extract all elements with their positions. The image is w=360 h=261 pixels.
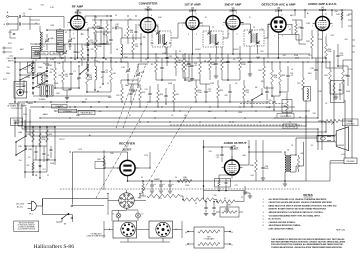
wire filament end	[235, 193, 250, 202]
svg-text:2ND IF AMP: 2ND IF AMP	[225, 3, 242, 7]
svg-text:68: 68	[204, 61, 206, 63]
svg-text:C24: C24	[260, 29, 263, 31]
svg-text:PAGE S-86: PAGE S-86	[336, 229, 345, 232]
resistor R43 filament string c	[217, 200, 235, 204]
svg-text:2: 2	[144, 36, 145, 38]
boxed label ANT COIL	[35, 51, 48, 55]
svg-text:2: 2	[274, 36, 275, 38]
svg-text:.05: .05	[28, 157, 31, 159]
svg-text:.05: .05	[77, 79, 80, 81]
svg-text:1ST IF AMP: 1ST IF AMP	[184, 3, 200, 7]
svg-text:T3: T3	[291, 145, 293, 147]
svg-text:R14: R14	[160, 94, 163, 96]
svg-text:.01: .01	[290, 75, 293, 77]
svg-text:R16: R16	[177, 62, 180, 64]
wire V8 left column	[203, 140, 205, 200]
wire loop top feed to sockets	[73, 198, 109, 200]
resistor R33 in tone box	[333, 83, 335, 95]
capacitor C50	[50, 149, 53, 150]
transformer T5 secondary	[290, 155, 291, 172]
svg-text:PHONO: PHONO	[13, 120, 20, 122]
junction dots on buses	[54, 53, 334, 194]
svg-text:VT BALLAST: VT BALLAST	[204, 238, 216, 241]
wire left-mid horizontals	[25, 127, 55, 172]
switch arm S1A	[33, 71, 47, 78]
svg-text:C12: C12	[169, 56, 172, 58]
capacitor C24	[265, 91, 268, 92]
wire converter left mesh	[92, 38, 107, 48]
svg-text:BAND SELECTOR SWITCH SHOWN IN: BAND SELECTOR SWITCH SHOWN IN BAND A POS…	[269, 204, 338, 207]
ground G14	[204, 214, 208, 216]
svg-text:C11: C11	[141, 72, 144, 74]
value labels left-mid	[18, 131, 55, 177]
svg-text:AUDIO AMP & B.F.O.: AUDIO AMP & B.F.O.	[308, 2, 338, 6]
svg-text:R8: R8	[169, 43, 171, 45]
wire rectifier bottom lead	[127, 176, 129, 181]
svg-text:C10: C10	[121, 67, 124, 69]
svg-text:C25: C25	[268, 100, 271, 102]
resistor R7	[132, 40, 135, 52]
svg-text:S2: S2	[247, 101, 249, 103]
svg-text:.02: .02	[325, 103, 328, 105]
boxed label ON-OFF VOLUME	[277, 114, 294, 119]
svg-text:.05: .05	[106, 44, 109, 46]
wire loop 1	[18, 102, 306, 126]
resistor R53	[46, 130, 49, 142]
svg-text:FOR LATE PRODUCTION CHANGES. A: FOR LATE PRODUCTION CHANGES. ALL MEASURE…	[271, 243, 344, 246]
svg-text:1: 1	[312, 26, 313, 28]
svg-text:CONTROL: CONTROL	[346, 124, 355, 126]
svg-text:R3: R3	[50, 72, 52, 74]
resistor R9	[155, 60, 158, 72]
capacitor C15	[129, 93, 132, 94]
wire y44 bus	[30, 43, 111, 45]
wire AVC bus y102	[18, 101, 270, 103]
capacitor C13	[160, 67, 163, 68]
svg-text:5: 5	[326, 35, 327, 37]
svg-text:GANG: GANG	[27, 102, 33, 105]
svg-text:47: 47	[179, 51, 181, 53]
wire det top mesh	[292, 20, 306, 44]
capacitor C6	[109, 39, 112, 40]
svg-text:R31: R31	[324, 75, 327, 77]
capacitor C2	[19, 22, 20, 25]
resistor R24	[271, 70, 274, 84]
svg-text:PADDER ADJ: PADDER ADJ	[81, 112, 93, 115]
capacitor C10 osc padder	[126, 70, 130, 71]
capacitor C43	[135, 31, 138, 32]
capacitor C18	[187, 63, 190, 64]
capacitor C27	[300, 27, 303, 28]
wire y75 link	[20, 74, 47, 76]
wire right verticals	[306, 30, 345, 181]
svg-text:R21: R21	[220, 90, 223, 92]
boxed label TRIMMER PADDER	[78, 110, 95, 115]
transformer T3 3rd IF	[244, 30, 264, 46]
volume control R28	[282, 100, 292, 113]
capacitor C17	[164, 95, 167, 96]
wire T5 secondary leads	[296, 138, 317, 172]
svg-text:1200: 1200	[185, 185, 189, 187]
svg-text:40: 40	[141, 177, 143, 179]
wire antenna leads	[9, 17, 18, 31]
svg-text:3-30: 3-30	[50, 69, 54, 71]
phones jack J2	[344, 158, 357, 164]
svg-text:G: G	[3, 24, 5, 26]
svg-text:1200: 1200	[183, 179, 187, 181]
capacitor C16	[148, 93, 151, 94]
svg-text:PHONES: PHONES	[347, 161, 356, 163]
svg-text:.05: .05	[233, 59, 236, 61]
wire gang dash-dot diagonal D2	[139, 106, 192, 198]
svg-text:40MFD: 40MFD	[154, 179, 161, 181]
antenna terminal E1	[7, 16, 9, 18]
wire osc mesh	[121, 33, 148, 88]
coil L3 box	[28, 62, 36, 73]
boxed label ON-OFF	[95, 162, 105, 169]
wire interlock loop	[43, 199, 73, 220]
tube V3 envelope	[186, 17, 199, 30]
svg-text:47: 47	[289, 29, 291, 31]
svg-text:7: 7	[332, 26, 333, 28]
svg-text:B+: B+	[307, 13, 309, 15]
resistor R17	[209, 58, 212, 70]
speaker LS1 cone	[334, 134, 336, 143]
svg-text:T3: T3	[253, 27, 255, 29]
boxed label OSC ADJ	[52, 104, 68, 108]
capacitor C44	[23, 85, 26, 86]
svg-text:R15: R15	[176, 94, 179, 96]
pilot lamp I2	[136, 213, 141, 218]
boxed label RF COIL	[50, 51, 63, 55]
svg-text:35L6GT: 35L6GT	[230, 148, 239, 151]
svg-text:ARROW INDICATES CLOCKWISE ROTA: ARROW INDICATES CLOCKWISE ROTATION OF CO…	[269, 211, 324, 214]
resistor R13	[139, 88, 142, 100]
wire B+ top bus	[78, 9, 353, 11]
resistor R35 surge	[103, 156, 105, 166]
resistor R39 cathode	[218, 180, 220, 187]
svg-text:R6: R6	[97, 91, 99, 93]
plug P1	[28, 204, 32, 209]
svg-text:C40: C40	[346, 15, 349, 17]
svg-text:.05: .05	[235, 83, 238, 85]
trimmer C47	[63, 52, 67, 53]
svg-text:6: 6	[326, 14, 327, 16]
svg-text:R27: R27	[308, 55, 311, 57]
capacitor C29	[336, 55, 339, 56]
wire detector drops	[268, 24, 299, 58]
coil L7 BFO box	[304, 87, 311, 102]
svg-text:MAY VARY BETWEEN PRODUCTION RU: MAY VARY BETWEEN PRODUCTION RUNS. CONSUL…	[271, 241, 346, 244]
jack J1 terminals	[3, 47, 5, 49]
wire RF grid mesh	[30, 24, 111, 34]
svg-text:22: 22	[47, 175, 49, 177]
svg-text:R32: R32	[348, 69, 351, 71]
wire plug to loop	[36, 205, 42, 207]
svg-text:Hallicrafters S-86: Hallicrafters S-86	[34, 243, 75, 250]
wire socket X1 leads	[108, 190, 146, 215]
resistor R42 filament string b	[183, 198, 214, 202]
svg-text:CAPACITOR VALUES ARE IN MFD. U: CAPACITOR VALUES ARE IN MFD. UNLESS OTHE…	[269, 201, 333, 204]
wire loop 4	[30, 50, 334, 136]
coil L4 box	[38, 73, 46, 84]
wire bus y107	[30, 106, 295, 108]
wire left-mid verticals	[25, 120, 55, 178]
svg-text:IN POSITION. SWITCH: IN POSITION. SWITCH	[18, 224, 36, 226]
switch arm S1E	[80, 67, 88, 74]
svg-text:C9: C9	[124, 35, 126, 37]
wire V8 cathode leads	[204, 175, 246, 191]
capacitor C34 filter	[168, 185, 172, 186]
resistor R18	[221, 58, 224, 70]
wire loop 5 left drop	[14, 122, 16, 137]
svg-text:R50: R50	[76, 52, 79, 54]
resistor R46 RF plate load	[94, 22, 97, 34]
transformer T5 primary	[285, 155, 286, 172]
tone box	[331, 81, 345, 103]
svg-text:47: 47	[129, 115, 131, 117]
boxed label TRIMMER ADJ	[58, 109, 77, 113]
svg-text:BFO: BFO	[308, 73, 312, 75]
tube socket X2 bottom view	[121, 222, 135, 236]
svg-text:CLOCKWISE POSITION: CLOCKWISE POSITION	[17, 229, 35, 231]
svg-text:2: 2	[229, 34, 230, 36]
svg-text:5: 5	[196, 34, 197, 36]
junction dots extra pass	[14, 15, 308, 122]
capacitor C21	[248, 61, 251, 62]
capacitor C35 coupling	[220, 154, 223, 155]
resistor R52	[39, 133, 42, 145]
svg-text:.05: .05	[184, 115, 187, 117]
wire dashed bus y103.5	[240, 103, 285, 105]
svg-text:C15: C15	[144, 89, 147, 91]
wire y16 link	[30, 19, 40, 21]
svg-text:455KC: 455KC	[233, 49, 239, 51]
svg-text:2.2M: 2.2M	[186, 66, 191, 68]
wire V8 right columns	[249, 140, 263, 164]
wire V8 plate to T5	[240, 152, 283, 165]
svg-text:1: 1	[268, 27, 269, 29]
capacitor C14	[190, 65, 193, 66]
svg-text:RADIO: RADIO	[14, 122, 20, 125]
svg-text:RF AMP: RF AMP	[72, 5, 83, 9]
loop small box	[220, 207, 239, 217]
capacitor C20	[226, 61, 229, 62]
band switch S1A wafer	[32, 60, 34, 96]
svg-text:1: 1	[182, 25, 183, 27]
wire bus y62	[15, 61, 330, 63]
value labels IF section	[187, 27, 261, 103]
svg-text:PL1: PL1	[29, 214, 32, 216]
wire speaker return	[306, 161, 344, 181]
switch arm S1C left	[20, 65, 30, 70]
pilot lamp I1	[116, 213, 121, 218]
svg-text:LINE CAPACITOR SYMBOL:: LINE CAPACITOR SYMBOL:	[269, 228, 295, 231]
resistor R44a	[198, 230, 220, 233]
ground G9	[159, 191, 163, 193]
wire gang dash-dot diagonal D1	[96, 104, 148, 198]
wire audio amp mesh	[312, 58, 352, 94]
svg-text:R25: R25	[282, 75, 285, 77]
wire V8 grid top	[204, 147, 233, 160]
wire loop 2	[22, 104, 318, 150]
svg-text:2.2M: 2.2M	[50, 59, 54, 61]
tube V4 envelope	[226, 16, 240, 30]
svg-text:VOLTAGES MEASURED WITH VTVM, N: VOLTAGES MEASURED WITH VTVM, NO SIGNAL I…	[269, 214, 321, 217]
svg-text:VT9 BALLAST: VT9 BALLAST	[91, 232, 102, 235]
svg-text:3-30: 3-30	[23, 69, 27, 71]
capacitor C32 filter	[150, 185, 154, 186]
wire x352 stubs	[348, 14, 352, 26]
ground G15	[212, 214, 216, 216]
capacitor C38 line bypass	[204, 207, 207, 208]
cathode box V8	[215, 179, 231, 188]
svg-text:ADJUSTABLE RESISTOR SYMBOL:: ADJUSTABLE RESISTOR SYMBOL:	[269, 224, 302, 227]
wire cathode drops top tubes	[78, 30, 323, 63]
pin number labels top tubes	[67, 13, 333, 39]
ground G17	[248, 196, 252, 198]
svg-text:R6: R6	[113, 73, 115, 75]
svg-text:150: 150	[335, 11, 338, 13]
resistor R1	[87, 36, 90, 48]
svg-text:6: 6	[282, 15, 283, 17]
svg-text:R27: R27	[297, 83, 300, 85]
svg-text:R23: R23	[258, 70, 261, 72]
wire filament bus y122	[15, 121, 332, 123]
resistor R26 detector filter	[295, 24, 298, 34]
resistor R44b	[198, 242, 220, 245]
svg-text:TRIM ADJ: TRIM ADJ	[63, 110, 72, 113]
svg-text:3-30: 3-30	[50, 7, 53, 9]
wire antenna top bus	[30, 17, 64, 31]
svg-text:ALL RESISTORS ARE 1/2 W. UNLES: ALL RESISTORS ARE 1/2 W. UNLESS OTHERWIS…	[269, 198, 328, 201]
svg-text:2.2M: 2.2M	[197, 92, 202, 94]
svg-text:IDENTIFY ROTARY SWITCH SECTION: IDENTIFY ROTARY SWITCH SECTIONS VIEWED F…	[269, 208, 327, 211]
resistor R2	[95, 40, 98, 52]
resistor R19	[239, 58, 242, 70]
svg-text:CLOSED IN EXTREME: CLOSED IN EXTREME	[18, 227, 35, 229]
wire ballast leads	[188, 232, 230, 245]
svg-text:R38: R38	[242, 155, 245, 157]
wire loop mid feed	[73, 205, 105, 207]
boxed label S4	[283, 124, 297, 129]
svg-text:ON-OFF SW: ON-OFF SW	[285, 127, 296, 129]
svg-text:R49: R49	[336, 14, 339, 16]
svg-text:R51: R51	[27, 134, 30, 136]
svg-text:NOTES: NOTES	[303, 193, 312, 197]
svg-text:1: 1	[223, 25, 224, 27]
svg-text:R29: R29	[306, 41, 309, 43]
wire V8 screen	[231, 156, 233, 160]
capacitor C1	[19, 15, 20, 18]
svg-text:270: 270	[129, 19, 132, 21]
svg-text:100: 100	[83, 59, 86, 61]
coil L1 antenna	[39, 26, 41, 32]
coil L2 RF	[57, 30, 64, 52]
svg-text:6: 6	[236, 13, 237, 15]
capacitor C37 cathode	[225, 182, 228, 183]
capacitor C23	[228, 91, 231, 92]
resistor R36 filter	[178, 179, 192, 182]
resistor R8	[175, 56, 178, 68]
resistor R15	[173, 90, 176, 102]
svg-text:150: 150	[214, 195, 217, 197]
svg-text:.02: .02	[85, 99, 88, 101]
capacitor C28	[314, 69, 317, 70]
svg-text:600 KC: 600 KC	[8, 61, 15, 63]
resistor R32	[342, 70, 345, 84]
svg-text:C35: C35	[208, 151, 211, 153]
resistor R40 hum	[297, 157, 299, 169]
ground G3	[131, 90, 135, 92]
resistor R51	[32, 130, 35, 142]
svg-text:S3: S3	[64, 224, 66, 226]
svg-text:.005: .005	[265, 168, 269, 170]
resistor R31	[329, 70, 332, 84]
value labels converter section	[116, 35, 181, 117]
svg-text:455KC: 455KC	[195, 49, 201, 51]
resistor R4	[62, 70, 65, 82]
svg-text:C37: C37	[234, 185, 237, 187]
resistor R6	[110, 68, 113, 82]
svg-text:2: 2	[73, 34, 74, 36]
wire bus y111	[55, 110, 310, 112]
svg-text:R6: R6	[105, 59, 107, 61]
svg-text:.02: .02	[171, 115, 174, 117]
ground G7	[334, 97, 338, 99]
svg-text:6: 6	[151, 15, 152, 17]
capacitor C3 tuning gang section	[45, 40, 49, 41]
wire right edge vertical bus	[351, 10, 353, 158]
value labels left refinement	[27, 44, 112, 105]
capacitor C22	[204, 91, 207, 92]
svg-text:R38: R38	[250, 165, 253, 167]
svg-text:C26: C26	[282, 55, 285, 57]
wire RF plate line	[85, 16, 111, 23]
resistor R10	[184, 60, 187, 72]
svg-text:1: 1	[67, 25, 68, 27]
svg-text:DETECTOR-AVC & AMP: DETECTOR-AVC & AMP	[262, 3, 296, 7]
resistor R41 filament string a	[147, 194, 180, 198]
capacitor C51	[39, 165, 42, 166]
band switch S1E wafer	[87, 42, 89, 78]
meter M1 dial assembly	[14, 82, 27, 99]
svg-text:7: 7	[288, 27, 289, 29]
svg-text:20: 20	[175, 177, 177, 179]
resistor R37	[142, 184, 144, 192]
capacitor C46	[74, 51, 77, 52]
svg-text:L6: L6	[116, 49, 118, 51]
svg-text:.02: .02	[99, 87, 102, 89]
switch S2 AVC	[252, 94, 262, 100]
capacitor C31 in tone box	[339, 89, 342, 90]
svg-text:R9: R9	[151, 64, 153, 66]
svg-text:.05: .05	[194, 65, 197, 67]
value labels misc	[8, 11, 349, 161]
resistor R22	[243, 86, 246, 98]
resistor R25	[279, 70, 282, 84]
text box switch note	[14, 221, 39, 232]
svg-text:7: 7	[243, 25, 244, 27]
wire left column x20	[20, 62, 28, 92]
svg-text:.01: .01	[291, 69, 294, 71]
wire RF coil returns	[40, 57, 62, 59]
svg-text:7: 7	[87, 25, 88, 27]
capacitor C45 top-left	[13, 33, 15, 34]
ballast box R44	[194, 227, 224, 248]
svg-text:C42: C42	[98, 111, 101, 113]
svg-text:2.2M: 2.2M	[162, 53, 166, 55]
